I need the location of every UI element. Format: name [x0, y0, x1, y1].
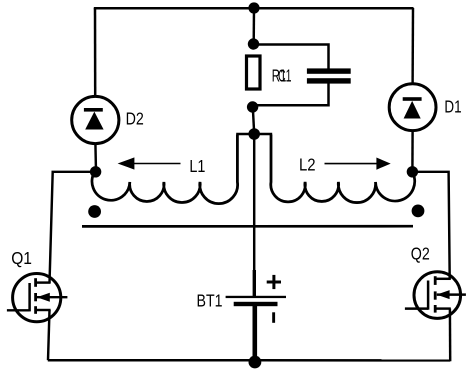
- diode D2: [72, 96, 119, 143]
- node top center junction: [248, 2, 259, 13]
- node right transformer end: [407, 166, 418, 177]
- wire from top rail to R1/C1 top node: [252, 8, 255, 44]
- svg-text:Q2: Q2: [411, 244, 430, 264]
- arrow L1 (pointing left): [118, 157, 181, 169]
- node transformer center tap: [248, 128, 260, 140]
- wire D1 to right node: [411, 131, 414, 173]
- transistor Q2: [405, 272, 466, 319]
- svg-text:D2: D2: [126, 108, 144, 128]
- battery BT1: [226, 296, 286, 363]
- node bottom center junction: [249, 356, 262, 369]
- inductor L2 winding: [271, 135, 415, 203]
- capacitor C1: [307, 68, 351, 83]
- wire right vertical from rail to D1: [411, 8, 414, 85]
- wire bottom rail: [48, 359, 450, 362]
- svg-text:C1: C1: [278, 66, 292, 86]
- svg-text:L2: L2: [299, 155, 316, 175]
- battery plus sign: [267, 275, 281, 289]
- wire Q1 source to bottom rail: [48, 310, 50, 360]
- wire left vertical from rail to D2: [94, 8, 97, 97]
- wire center tap to battery: [253, 134, 255, 271]
- svg-text:BT1: BT1: [197, 291, 223, 311]
- node RC top junction: [248, 38, 259, 49]
- inductor L1 winding: [92, 135, 238, 204]
- node left transformer end: [90, 166, 101, 177]
- phasing dot left: [88, 205, 101, 218]
- svg-text:L1: L1: [189, 156, 205, 176]
- wire from RC bottom to center tap: [253, 107, 254, 134]
- transistor Q1: [7, 274, 68, 322]
- wire RC loop top: [254, 45, 329, 70]
- wire left node to Q1 drain: [50, 172, 96, 283]
- svg-text:D1: D1: [444, 97, 461, 117]
- wire D2 to left node: [94, 143, 97, 172]
- wire top rail: [94, 7, 414, 10]
- wire Q2 source to bottom rail: [449, 309, 452, 362]
- wire right node to Q2 drain: [412, 172, 449, 279]
- diode D1: [389, 84, 436, 131]
- wire RC loop bottom: [253, 83, 329, 105]
- svg-text:Q1: Q1: [11, 248, 32, 268]
- node RC bottom junction: [247, 101, 258, 112]
- battery minus mark: [272, 312, 275, 323]
- wire battery positive lead: [253, 270, 256, 296]
- phasing dot right: [412, 205, 425, 218]
- wire center tap arms: [236, 133, 272, 136]
- transformer core: [82, 225, 413, 228]
- arrow L2 (pointing right): [325, 158, 391, 170]
- resistor R1: [247, 56, 261, 89]
